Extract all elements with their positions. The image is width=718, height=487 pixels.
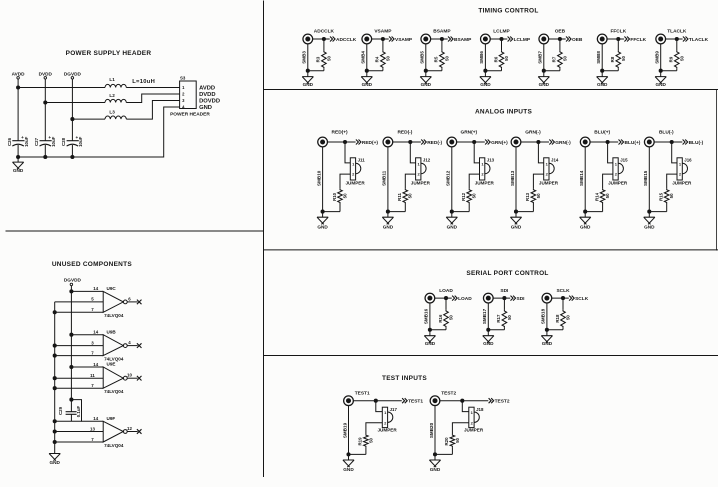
- wire connector down: [584, 147, 586, 218]
- svg-text:SMB14: SMB14: [579, 170, 584, 186]
- jumper J15: [608, 158, 628, 186]
- svg-text:14: 14: [93, 286, 98, 291]
- node junction: [670, 140, 673, 143]
- svg-text:50: 50: [507, 315, 512, 320]
- svg-text:BLU(-): BLU(-): [689, 140, 704, 146]
- output port RED(-): [421, 140, 442, 146]
- svg-text:VSAMP: VSAMP: [395, 37, 413, 43]
- svg-text:GRN(-): GRN(-): [525, 130, 541, 136]
- wire resistor to bottom: [676, 68, 678, 70]
- svg-text:1: 1: [417, 161, 420, 166]
- svg-text:50: 50: [621, 56, 626, 61]
- node bottom: [306, 69, 309, 72]
- wire bottom: [602, 70, 618, 72]
- svg-text:GND: GND: [511, 225, 522, 230]
- wire connector down: [451, 147, 453, 218]
- wire junction to jumper: [474, 142, 479, 163]
- connector SMB11: [382, 137, 393, 186]
- ground: [597, 77, 608, 87]
- svg-text:L3: L3: [109, 109, 115, 114]
- svg-text:J11: J11: [358, 158, 366, 163]
- ground: [538, 77, 549, 87]
- svg-text:R9: R9: [669, 56, 674, 62]
- output port VSAMP: [389, 37, 413, 43]
- svg-text:GND: GND: [483, 341, 494, 346]
- svg-text:BSAMP: BSAMP: [454, 37, 472, 43]
- wire pin14 U9F jog: [71, 400, 103, 422]
- wire to output: [456, 141, 484, 143]
- node ground rail: [17, 155, 20, 158]
- section divider: left column: [6, 230, 264, 232]
- jumper J12: [411, 158, 431, 186]
- node bottom: [428, 328, 431, 331]
- svg-text:TLACLK: TLACLK: [667, 29, 687, 35]
- connector SMB14: [579, 137, 590, 186]
- node DGVDD: [71, 118, 74, 121]
- wire junction down: [382, 39, 384, 51]
- node bottom: [584, 210, 587, 213]
- svg-text:74LVQ04: 74LVQ04: [104, 443, 124, 448]
- ground: [429, 460, 440, 472]
- output port BLU(+): [619, 140, 641, 146]
- svg-text:LCLMP: LCLMP: [514, 37, 531, 43]
- connector SMB9: [655, 34, 666, 64]
- wire resistor to bottom: [382, 68, 384, 70]
- svg-text:JUMPER: JUMPER: [475, 180, 495, 185]
- svg-text:GND: GND: [542, 341, 553, 346]
- svg-text:S3: S3: [180, 76, 186, 81]
- wire junction to jumper: [462, 401, 469, 412]
- resistor R5 50: [434, 51, 450, 69]
- node bottom: [386, 210, 389, 213]
- node C29 bottom rail: [53, 420, 56, 423]
- svg-text:DVDD: DVDD: [199, 92, 215, 98]
- svg-text:J18: J18: [476, 407, 484, 412]
- svg-text:TEST2: TEST2: [495, 399, 510, 405]
- svg-text:R11: R11: [397, 192, 402, 200]
- node input rail: [53, 377, 56, 380]
- wire input/ground rail: [54, 302, 56, 454]
- section divider: timing/analog: [264, 89, 718, 91]
- svg-text:50: 50: [669, 193, 674, 198]
- svg-text:R20: R20: [444, 437, 449, 446]
- svg-text:ANALOG INPUTS: ANALOG INPUTS: [475, 109, 532, 116]
- output port LCLMP: [508, 37, 531, 43]
- section divider: serial/test: [264, 355, 718, 357]
- ground: [644, 217, 655, 229]
- svg-text:TEST2: TEST2: [441, 390, 456, 396]
- wire gnd to C29 bottom: [55, 420, 82, 422]
- wire to output: [490, 38, 507, 40]
- jumper J11: [346, 158, 366, 186]
- resistor R3 50: [316, 51, 332, 69]
- wire to output: [312, 38, 329, 40]
- svg-text:12: 12: [127, 426, 132, 431]
- wire junction down: [559, 39, 561, 51]
- node bottom: [450, 210, 453, 213]
- jumper J13: [475, 158, 495, 186]
- wire connector down: [660, 44, 662, 77]
- svg-text:JUMPER: JUMPER: [378, 428, 398, 433]
- wire bottom: [426, 70, 442, 72]
- svg-text:C26: C26: [7, 137, 12, 146]
- svg-text:2: 2: [481, 172, 484, 177]
- svg-text:1: 1: [679, 161, 682, 166]
- svg-text:SERIAL PORT CONTROL: SERIAL PORT CONTROL: [466, 270, 548, 277]
- svg-text:50: 50: [472, 193, 477, 198]
- wire connector down: [387, 147, 389, 218]
- wire AVDD to L1: [18, 87, 105, 89]
- output port BLU(-): [683, 140, 704, 146]
- svg-text:11: 11: [90, 373, 95, 378]
- svg-text:0.1uF: 0.1uF: [76, 405, 81, 417]
- wire jumper to resistor: [340, 174, 350, 189]
- svg-text:10uF: 10uF: [51, 136, 56, 147]
- node bottom: [321, 210, 324, 213]
- svg-text:2: 2: [615, 172, 618, 177]
- wire input pin U9E: [55, 377, 103, 379]
- svg-text:SMB11: SMB11: [382, 170, 387, 186]
- resistor R13 50: [525, 189, 541, 204]
- svg-text:UNUSED COMPONENTS: UNUSED COMPONENTS: [52, 261, 133, 268]
- wire bottom: [649, 211, 666, 213]
- node DGVDD to C29: [70, 398, 73, 401]
- inverter gate U9F 74LVQ04: [90, 416, 132, 448]
- svg-text:U9C: U9C: [107, 286, 117, 291]
- svg-text:50: 50: [679, 56, 684, 61]
- svg-text:GND: GND: [447, 225, 458, 230]
- output port TEST1: [402, 398, 423, 404]
- svg-text:SMB9: SMB9: [655, 51, 660, 64]
- node junction: [675, 37, 678, 40]
- svg-text:VSAMP: VSAMP: [374, 29, 392, 35]
- wire junction down: [441, 39, 443, 51]
- node DGVDD rail: [70, 365, 73, 368]
- svg-text:L2: L2: [109, 93, 115, 98]
- wire connector down: [366, 44, 368, 77]
- output port TEST2: [489, 398, 510, 404]
- svg-text:GND: GND: [303, 82, 314, 87]
- connector SMB19: [342, 396, 353, 438]
- wire to output: [654, 141, 682, 143]
- wire to output: [327, 141, 355, 143]
- node junction: [558, 37, 561, 40]
- wire junction down: [445, 298, 447, 310]
- svg-text:FFCLK: FFCLK: [630, 37, 646, 43]
- wire to output: [552, 297, 569, 299]
- svg-text:2: 2: [546, 172, 549, 177]
- svg-text:LOAD: LOAD: [439, 288, 453, 294]
- wire jumper to resistor: [533, 174, 543, 189]
- node AVDD: [17, 86, 20, 89]
- wire to output: [353, 400, 402, 402]
- resistor R17 50: [496, 310, 512, 328]
- svg-text:RED(-): RED(-): [427, 140, 442, 146]
- svg-text:POWER SUPPLY HEADER: POWER SUPPLY HEADER: [66, 50, 152, 57]
- node bottom: [487, 328, 490, 331]
- node junction: [561, 297, 564, 300]
- svg-text:2: 2: [679, 172, 682, 177]
- wire to output: [548, 38, 565, 40]
- resistor R11 50: [397, 189, 413, 204]
- wire resistor to bottom: [404, 204, 406, 212]
- wire junction to jumper: [538, 142, 543, 163]
- svg-text:GND: GND: [539, 82, 550, 87]
- wire resistor to bottom: [503, 327, 505, 329]
- wire resistor to bottom: [559, 68, 561, 70]
- output port SDI: [511, 296, 526, 302]
- resistor R6 50: [493, 51, 509, 69]
- inductor L3: [105, 109, 126, 119]
- wire junction down: [323, 39, 325, 51]
- wire connector down: [546, 303, 548, 336]
- wire pin7 U9E: [55, 387, 103, 389]
- svg-text:R6: R6: [493, 56, 498, 62]
- connector SMB7: [538, 34, 549, 64]
- node DVDD: [44, 101, 47, 104]
- svg-text:GND: GND: [644, 225, 655, 230]
- svg-text:10uF: 10uF: [78, 136, 83, 147]
- ground: [49, 454, 60, 466]
- ground: [541, 336, 552, 346]
- node gnd rail: [53, 311, 56, 314]
- ground: [343, 460, 354, 472]
- wire input pin U9F: [55, 431, 103, 433]
- svg-text:2: 2: [182, 92, 185, 97]
- svg-text:1: 1: [481, 161, 484, 166]
- svg-text:1: 1: [471, 410, 474, 415]
- svg-text:J12: J12: [423, 158, 431, 163]
- section divider: analog/serial: [264, 249, 718, 251]
- svg-text:JUMPER: JUMPER: [539, 180, 559, 185]
- svg-text:3: 3: [91, 340, 94, 345]
- wire resistor to bottom: [445, 327, 447, 329]
- resistor R16 50: [438, 310, 454, 328]
- svg-text:AVDD: AVDD: [12, 71, 26, 76]
- svg-text:SCLK: SCLK: [556, 288, 570, 294]
- wire pin14 U9B: [71, 334, 103, 336]
- node bottom: [433, 453, 436, 456]
- wire L1 to header pin1: [126, 87, 179, 89]
- wire connector down: [648, 147, 650, 218]
- node DGVDD rail: [70, 290, 73, 293]
- wire bottom: [516, 211, 533, 213]
- resistor R12 50: [461, 189, 477, 204]
- svg-text:50: 50: [566, 315, 571, 320]
- svg-text:50: 50: [536, 193, 541, 198]
- svg-text:1: 1: [182, 85, 185, 90]
- svg-text:R14: R14: [594, 192, 599, 201]
- node bottom: [514, 210, 517, 213]
- svg-text:10uF: 10uF: [24, 136, 29, 147]
- svg-text:SMB15: SMB15: [643, 170, 648, 186]
- wire connector down: [348, 405, 350, 460]
- node bottom: [484, 69, 487, 72]
- connector SMB15: [643, 137, 654, 186]
- ground: [424, 336, 435, 346]
- svg-text:13: 13: [90, 426, 95, 431]
- wire pin7 U9F: [55, 441, 103, 443]
- wire bottom: [452, 211, 469, 213]
- svg-text:R5: R5: [434, 56, 439, 62]
- header S3 POWER HEADER: [170, 76, 220, 118]
- connector SMB3: [302, 34, 313, 64]
- wire bottom: [388, 211, 405, 213]
- svg-text:1: 1: [352, 161, 355, 166]
- svg-text:TEST1: TEST1: [408, 399, 423, 405]
- wire AVDD vertical: [17, 79, 19, 141]
- svg-text:J16: J16: [684, 158, 692, 163]
- output port GRN(-): [549, 140, 571, 146]
- wire connector down: [484, 44, 486, 77]
- output port ADCCLK: [330, 37, 357, 43]
- wire ground stub: [17, 157, 19, 162]
- ground: [382, 217, 393, 229]
- svg-text:RED(+): RED(+): [332, 130, 349, 136]
- svg-text:JUMPER: JUMPER: [346, 180, 366, 185]
- svg-text:R13: R13: [525, 192, 530, 201]
- no-connect X U9E: [137, 376, 142, 381]
- svg-text:SMB19: SMB19: [342, 422, 347, 438]
- connector SMB8: [596, 34, 607, 64]
- svg-text:50: 50: [327, 56, 332, 61]
- wire resistor to bottom: [602, 204, 604, 212]
- wire connector down: [515, 147, 517, 218]
- wire junction down: [676, 39, 678, 51]
- wire resistor to bottom: [468, 204, 470, 212]
- svg-text:GND: GND: [430, 467, 441, 472]
- wire connector down: [601, 44, 603, 77]
- node bottom: [659, 69, 662, 72]
- svg-text:7: 7: [91, 383, 94, 388]
- svg-text:SMB17: SMB17: [482, 308, 487, 324]
- no-connect X U9B: [137, 343, 142, 348]
- svg-text:SCLK: SCLK: [575, 296, 589, 302]
- svg-text:R3: R3: [316, 56, 321, 62]
- wire connector down: [307, 44, 309, 77]
- wire header pin4 to ground rail: [18, 107, 180, 157]
- svg-text:SMB18: SMB18: [541, 308, 546, 324]
- wire input pin U9B: [55, 345, 103, 347]
- svg-text:JUMPER: JUMPER: [672, 180, 692, 185]
- wire to output: [430, 38, 447, 40]
- svg-text:LOAD: LOAD: [458, 296, 472, 302]
- node junction: [374, 399, 377, 402]
- wire bottom: [488, 329, 504, 331]
- wire connector down: [543, 44, 545, 77]
- node bottom: [648, 210, 651, 213]
- svg-text:TEST INPUTS: TEST INPUTS: [382, 375, 427, 382]
- output port RED(+): [356, 140, 379, 146]
- wire output U9B: [127, 345, 138, 347]
- svg-text:ADCCLK: ADCCLK: [314, 29, 335, 35]
- svg-text:50: 50: [449, 315, 454, 320]
- output port FFCLK: [624, 37, 646, 43]
- node bottom: [347, 453, 350, 456]
- svg-text:SMB10: SMB10: [316, 170, 321, 186]
- wire L3 to header pin3: [126, 101, 179, 120]
- svg-text:7: 7: [91, 307, 94, 312]
- node gnd rail: [53, 354, 56, 357]
- wire pin7 U9B: [55, 355, 103, 357]
- svg-text:POWER HEADER: POWER HEADER: [170, 112, 210, 118]
- svg-text:GND: GND: [597, 82, 608, 87]
- svg-text:GND: GND: [343, 467, 354, 472]
- svg-text:50: 50: [342, 193, 347, 198]
- svg-text:AVDD: AVDD: [199, 86, 215, 92]
- svg-text:L=10uH: L=10uH: [132, 79, 155, 85]
- svg-text:2: 2: [384, 420, 387, 425]
- node junction: [606, 140, 609, 143]
- svg-text:RED(+): RED(+): [362, 140, 379, 146]
- output port SCLK: [569, 296, 589, 302]
- svg-text:R19: R19: [358, 437, 363, 446]
- svg-text:SMB5: SMB5: [420, 51, 425, 64]
- wire resistor to bottom: [339, 204, 341, 212]
- wire output U9C: [127, 301, 138, 303]
- wire bottom: [547, 329, 563, 331]
- svg-text:50: 50: [563, 56, 568, 61]
- connector SMB17: [482, 293, 493, 324]
- svg-text:BLU(-): BLU(-): [659, 130, 674, 136]
- wire output U9F: [127, 431, 138, 433]
- wire bottom: [430, 329, 446, 331]
- wire to output: [607, 38, 624, 40]
- svg-text:GRN(+): GRN(+): [491, 140, 508, 146]
- svg-text:5: 5: [91, 297, 94, 302]
- node bottom: [365, 69, 368, 72]
- svg-text:SMB20: SMB20: [429, 422, 434, 438]
- power input port DGVDD: [64, 71, 82, 79]
- svg-text:50: 50: [445, 56, 450, 61]
- jumper J18: [464, 407, 484, 433]
- svg-text:GND: GND: [480, 82, 491, 87]
- power input port AVDD: [12, 71, 26, 79]
- svg-text:14: 14: [93, 362, 98, 367]
- node gnd rail: [53, 440, 56, 443]
- wire jumper to resistor: [366, 423, 382, 434]
- wire junction down: [501, 39, 503, 51]
- wire pin7 U9C: [55, 311, 103, 313]
- svg-text:DVDD: DVDD: [39, 71, 53, 76]
- svg-text:7: 7: [91, 350, 94, 355]
- wire junction to jumper: [345, 142, 350, 163]
- svg-text:GND: GND: [383, 225, 394, 230]
- svg-text:50: 50: [504, 56, 509, 61]
- svg-text:14: 14: [93, 330, 98, 335]
- wire bottom: [485, 70, 501, 72]
- power input port DGVDD: [64, 278, 82, 286]
- connector SMB5: [420, 34, 431, 64]
- inductor L1: [105, 77, 126, 87]
- wire pin14 U9E: [71, 366, 103, 368]
- svg-text:TLACLK: TLACLK: [689, 37, 709, 43]
- wire junction down: [617, 39, 619, 51]
- svg-text:1: 1: [615, 161, 618, 166]
- svg-text:SMB16: SMB16: [424, 308, 429, 324]
- svg-text:RED(-): RED(-): [397, 130, 412, 136]
- capacitor C29 0.1uF: [58, 400, 81, 422]
- svg-text:SMB7: SMB7: [538, 51, 543, 64]
- svg-text:JUMPER: JUMPER: [464, 428, 484, 433]
- ground: [302, 77, 313, 87]
- svg-text:R10: R10: [332, 192, 337, 201]
- svg-text:50: 50: [605, 193, 610, 198]
- wire to output: [435, 297, 452, 299]
- svg-text:SDI: SDI: [500, 288, 509, 294]
- svg-text:6: 6: [128, 296, 131, 301]
- svg-text:R16: R16: [438, 314, 443, 323]
